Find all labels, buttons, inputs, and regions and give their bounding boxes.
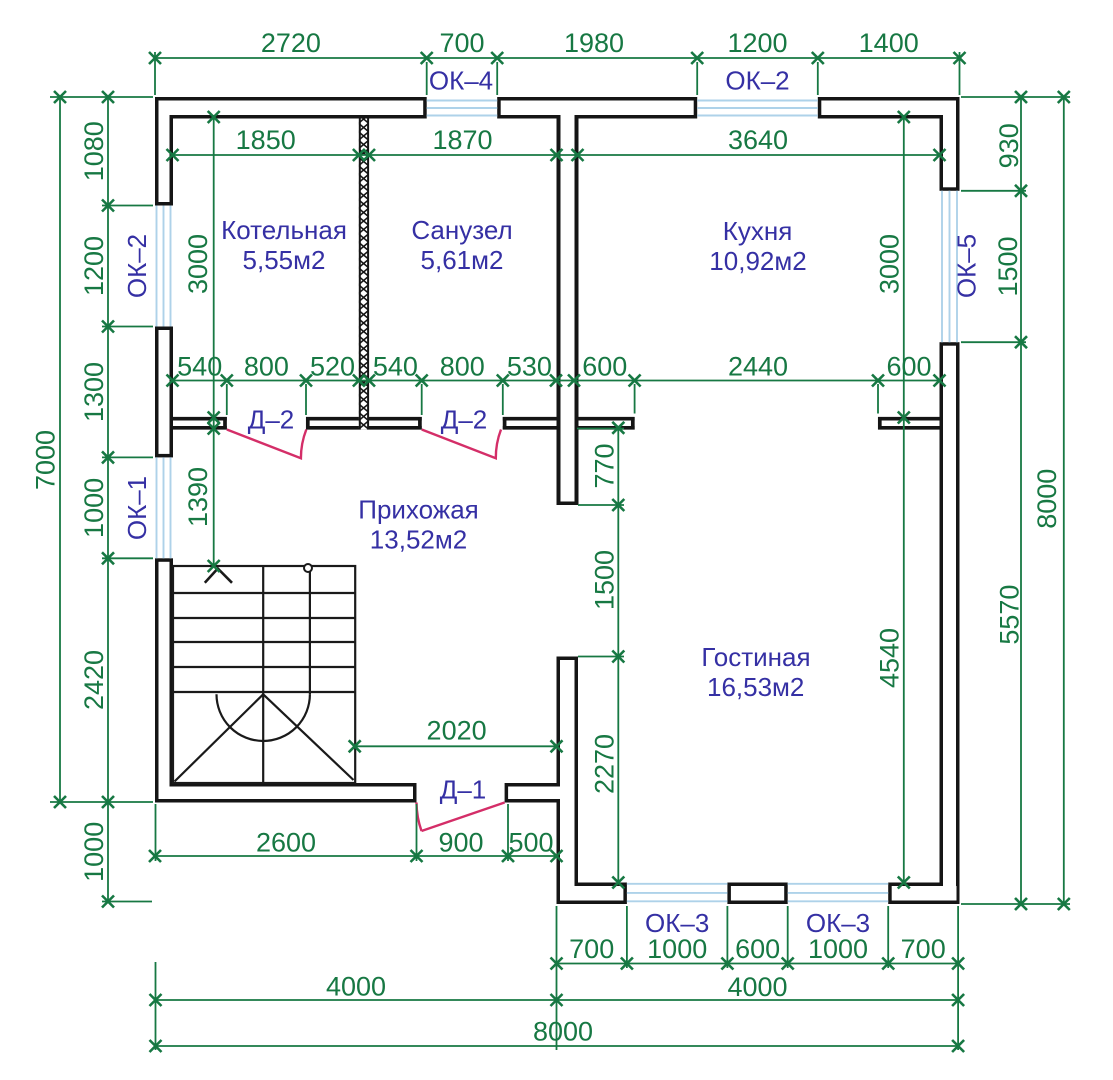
svg-text:8000: 8000 (1032, 469, 1062, 529)
svg-text:Прихожая: Прихожая (358, 495, 478, 525)
svg-text:Санузел: Санузел (411, 215, 512, 245)
dimension line bottom 8000 (150, 1017, 965, 1053)
label room kitchen 10.92 (709, 216, 806, 276)
wall bottom of living room (outer, with windows OK-3) (557, 883, 960, 905)
window OK-3 bottom left (627, 884, 728, 902)
svg-text:Д–1: Д–1 (440, 775, 487, 805)
door D-1 entrance (417, 803, 505, 832)
dimension line 540/800/520/540/800/530/600/2440/600 (167, 352, 946, 416)
svg-text:530: 530 (507, 352, 552, 382)
svg-text:13,52м2: 13,52м2 (370, 525, 467, 555)
wall bathroom/kitchen divider (vertical) (557, 119, 579, 506)
svg-text:5,61м2: 5,61м2 (421, 245, 504, 275)
svg-text:ОК–4: ОК–4 (429, 66, 493, 96)
svg-text:800: 800 (244, 352, 289, 382)
svg-text:2440: 2440 (728, 352, 788, 382)
wall bottom of hallway part (outer, with door D-1 opening) (155, 783, 560, 803)
svg-text:ОК–2: ОК–2 (122, 234, 152, 298)
svg-text:540: 540 (177, 352, 222, 382)
svg-text:1500: 1500 (993, 236, 1023, 296)
svg-text:2720: 2720 (261, 28, 321, 58)
svg-text:ОК–3: ОК–3 (806, 908, 870, 938)
label window OK-4 (429, 66, 493, 96)
svg-text:10,92м2: 10,92м2 (709, 246, 806, 276)
label window OK-1 left (122, 476, 152, 540)
svg-text:2270: 2270 (590, 734, 620, 794)
svg-text:Кухня: Кухня (723, 216, 793, 246)
dimension left chain 1080/1200/1300/1000/2420/1000 (50, 91, 153, 908)
dimension vertical 3000/1390 left (183, 111, 220, 572)
svg-text:900: 900 (438, 828, 483, 858)
svg-text:ОК–2: ОК–2 (725, 66, 789, 96)
svg-text:5570: 5570 (995, 585, 1025, 645)
svg-text:1000: 1000 (79, 822, 109, 882)
label door D-2 boiler (248, 405, 295, 435)
svg-text:ОК–5: ОК–5 (952, 234, 982, 298)
svg-text:700: 700 (439, 28, 484, 58)
svg-text:1300: 1300 (79, 362, 109, 422)
hatched wall between boiler room and bathroom (359, 119, 369, 430)
wall left (outer, with windows OK-2, OK-1) (155, 97, 173, 803)
label door D-2 bathroom (441, 405, 488, 435)
label window OK-2 left (122, 234, 152, 298)
svg-text:8000: 8000 (533, 1017, 593, 1047)
svg-text:540: 540 (373, 352, 418, 382)
svg-text:600: 600 (735, 934, 780, 964)
svg-text:520: 520 (310, 352, 355, 382)
wall top (outer, with window openings OK-4 and OK-2) (155, 97, 960, 119)
svg-text:4000: 4000 (727, 972, 787, 1002)
svg-text:3000: 3000 (875, 234, 905, 294)
svg-text:500: 500 (508, 828, 553, 858)
partition wall kitchen bottom right stub (878, 417, 941, 430)
svg-text:ОК–3: ОК–3 (645, 908, 709, 938)
svg-text:600: 600 (886, 352, 931, 382)
dimension left 7000 (31, 91, 67, 808)
window OK-4 top (427, 101, 498, 116)
dimension line bottom 700/1000/600/1000/700 (551, 906, 965, 970)
svg-text:1500: 1500 (590, 550, 620, 610)
svg-text:1870: 1870 (432, 125, 492, 155)
svg-text:1400: 1400 (859, 28, 919, 58)
partition wall below boiler room / bathroom (with two door openings) (171, 417, 557, 430)
svg-text:1000: 1000 (647, 934, 707, 964)
wall living room left (vertical) (557, 657, 579, 905)
svg-text:700: 700 (901, 934, 946, 964)
svg-text:16,53м2: 16,53м2 (707, 672, 804, 702)
label window OK-3 right (806, 908, 870, 938)
wall right (outer, with window OK-5) (940, 97, 960, 904)
label room living 16.53 (701, 642, 810, 702)
dimension line 1850/1870/3640 (167, 125, 946, 161)
door D-2 bathroom (422, 430, 501, 459)
dimension line bottom 4000/4000 (150, 804, 965, 1050)
svg-text:Д–2: Д–2 (248, 405, 295, 435)
dimension right 8000 (1032, 91, 1070, 910)
label room hallway 13.52 (358, 495, 478, 555)
svg-text:1850: 1850 (236, 125, 296, 155)
svg-text:Котельная: Котельная (221, 215, 347, 245)
svg-text:770: 770 (590, 443, 620, 488)
label room bathroom 5.61 (411, 215, 512, 275)
window OK-5 right (942, 191, 957, 342)
svg-text:1200: 1200 (79, 236, 109, 296)
dimension 2020 (349, 716, 563, 753)
dimension vertical 3000/4540 kitchen-living (875, 111, 910, 889)
window OK-2 left (157, 206, 171, 327)
label window OK-2 top (725, 66, 789, 96)
svg-text:Д–2: Д–2 (441, 405, 488, 435)
wall white cores (159, 101, 957, 901)
svg-text:2600: 2600 (256, 828, 316, 858)
svg-text:4540: 4540 (875, 628, 905, 688)
svg-text:5,55м2: 5,55м2 (243, 245, 326, 275)
svg-text:1390: 1390 (183, 467, 213, 527)
svg-text:ОК–1: ОК–1 (122, 476, 152, 540)
label window OK-5 right (952, 234, 982, 298)
dimension line top chain 2720/700/1980/1200/1400 (149, 28, 966, 95)
dimension right chain 930/1500/5570 (961, 91, 1070, 910)
label window OK-3 left (645, 908, 709, 938)
svg-text:700: 700 (569, 934, 614, 964)
svg-text:600: 600 (582, 352, 627, 382)
svg-text:1980: 1980 (564, 28, 624, 58)
svg-text:4000: 4000 (326, 972, 386, 1002)
dimension line 2600/900/500 (149, 804, 563, 862)
partition wall kitchen bottom left stub (577, 417, 635, 430)
svg-text:1200: 1200 (727, 28, 787, 58)
svg-text:1000: 1000 (79, 478, 109, 538)
svg-text:1080: 1080 (79, 121, 109, 181)
door D-2 boiler room (227, 430, 306, 459)
staircase (173, 564, 355, 783)
svg-text:1000: 1000 (808, 934, 868, 964)
window OK-1 left (157, 457, 171, 558)
svg-text:3640: 3640 (728, 125, 788, 155)
dimension vertical 770/1500/2270 (577, 422, 624, 889)
svg-text:800: 800 (440, 352, 485, 382)
label door D-1 (440, 775, 487, 805)
svg-text:7000: 7000 (31, 430, 61, 490)
svg-text:930: 930 (994, 123, 1024, 168)
window OK-2 top (697, 101, 818, 116)
window OK-3 bottom right (788, 884, 889, 902)
svg-text:2020: 2020 (427, 716, 487, 746)
label room boiler 5.55 (221, 215, 347, 275)
svg-text:3000: 3000 (183, 234, 213, 294)
svg-text:Гостиная: Гостиная (701, 642, 810, 672)
svg-text:2420: 2420 (79, 650, 109, 710)
